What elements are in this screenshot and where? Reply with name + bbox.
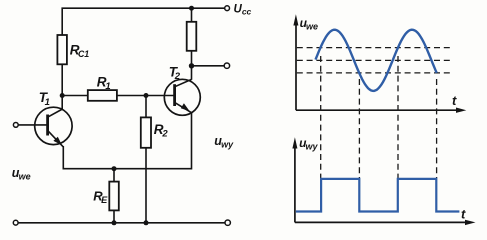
svg-text:t: t (452, 93, 457, 108)
svg-text:t: t (461, 207, 466, 222)
